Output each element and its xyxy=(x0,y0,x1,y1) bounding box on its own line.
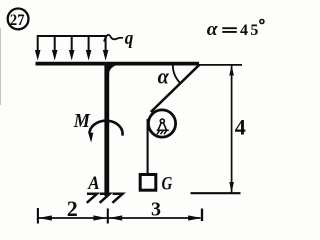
svg-text:α: α xyxy=(158,64,170,89)
dim arrow mid-left xyxy=(93,215,106,220)
bottom reference line for dim 4 xyxy=(191,192,241,194)
svg-text:α: α xyxy=(207,19,218,40)
rope vertical segment xyxy=(147,119,149,173)
dim4 bottom arrowhead xyxy=(229,182,234,193)
bottom dimension line xyxy=(39,217,201,219)
load arrow 4 xyxy=(86,35,92,61)
dimension 4 vertical line xyxy=(231,65,233,193)
dim arrow left-out xyxy=(39,215,52,220)
svg-text:3: 3 xyxy=(151,198,161,220)
column (vertical member) xyxy=(104,63,109,196)
beam (horizontal member) xyxy=(36,62,200,66)
moment arc M xyxy=(90,121,123,136)
dim arrow right-out xyxy=(188,215,201,220)
tick left xyxy=(37,208,39,224)
svg-text:q: q xyxy=(125,28,134,49)
moment arrowhead xyxy=(88,132,93,143)
weight box G xyxy=(140,175,156,191)
pulley axle pin support xyxy=(157,119,169,134)
dim4 top arrowhead xyxy=(229,65,234,76)
problem number badge 27 xyxy=(8,9,29,30)
svg-text:5: 5 xyxy=(250,22,258,39)
svg-text:G: G xyxy=(162,174,173,195)
load arrow 1 xyxy=(35,35,41,61)
svg-text:M: M xyxy=(73,110,91,132)
distributed load top line xyxy=(38,35,106,37)
load arrow 5 xyxy=(103,35,109,61)
dim arrow mid-right xyxy=(109,215,122,220)
fillet at frame corner xyxy=(109,66,116,75)
squiggle to q label xyxy=(104,35,123,42)
svg-text:4: 4 xyxy=(240,22,248,39)
tick middle xyxy=(107,209,109,224)
load arrow 2 xyxy=(52,35,58,61)
scan artifact line at left edge xyxy=(0,28,2,105)
load arrow 3 xyxy=(69,35,75,61)
rope diagonal segment xyxy=(151,64,200,112)
svg-text:4: 4 xyxy=(235,115,246,140)
svg-text:2: 2 xyxy=(67,196,78,221)
tick right xyxy=(201,209,203,222)
angle arc xyxy=(173,65,181,83)
top extension line to dimension xyxy=(199,64,242,66)
support hatching at A xyxy=(87,194,123,203)
svg-text:A: A xyxy=(87,173,99,194)
pulley xyxy=(148,110,175,137)
svg-text:27: 27 xyxy=(10,12,25,29)
